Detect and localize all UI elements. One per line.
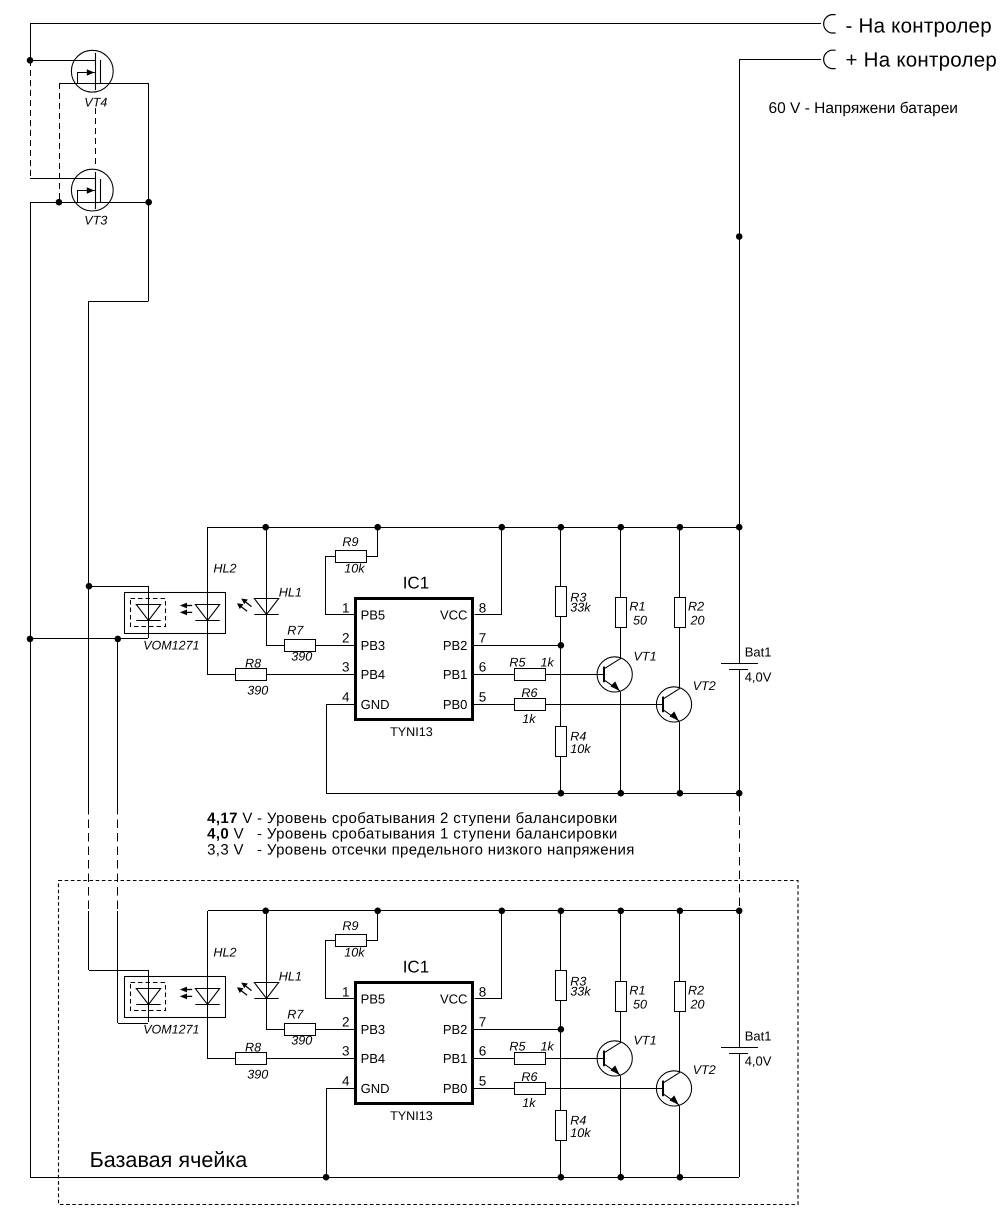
- connector X2 plus (socket arc): [824, 50, 836, 68]
- wire opto feed A to cell 2: [88, 911, 90, 970]
- resistor R3 (cell 2): [556, 971, 567, 1001]
- resistor R6 (cell 1): [515, 699, 546, 711]
- wire photodiode anode feed (cell 2): [89, 970, 148, 972]
- svg-text:R8: R8: [245, 1041, 261, 1055]
- wire jog to cell 1 opto anode feed: [89, 302, 149, 587]
- node battery rail junction (cell 1): [736, 524, 743, 531]
- svg-text:1k: 1k: [541, 1040, 555, 1054]
- wire R1 to VT1 collector (cell 1): [620, 628, 622, 658]
- wire Bat1 minus to bottom rail (cell 1): [739, 669, 741, 793]
- optocoupler VOM1271 body (cell 2): [125, 977, 226, 1018]
- svg-text:10k: 10k: [570, 742, 591, 756]
- wire left rail top segment: [30, 24, 32, 60]
- wire R1 to VT1 collector (cell 2): [620, 1012, 622, 1042]
- svg-text:R7: R7: [287, 1007, 304, 1021]
- node VT3 bottom right junction: [145, 199, 152, 206]
- svg-text:3: 3: [342, 660, 350, 675]
- svg-text:R6: R6: [521, 686, 537, 700]
- wire VT4 source-drain bottom: [59, 83, 149, 85]
- wire photodiode cathode to left rail (cell 1): [30, 638, 148, 640]
- svg-text:PB3: PB3: [361, 638, 386, 653]
- svg-text:PB1: PB1: [443, 667, 468, 682]
- svg-text:R7: R7: [287, 623, 304, 637]
- connector X1 minus (socket arc): [824, 15, 836, 33]
- node cathode feed B junction (cell 1): [115, 636, 122, 643]
- svg-text:R5: R5: [509, 1040, 526, 1054]
- svg-text:R2: R2: [688, 983, 704, 997]
- resistor R4 (cell 2): [556, 1111, 567, 1141]
- wire opto feed B solid segment: [117, 639, 119, 806]
- wire rail to R9 (cell 2): [367, 911, 378, 941]
- photodiode of VOM1271 (cell 2): [136, 989, 160, 1005]
- wire pin 5 PB0 to R6 (cell 1): [474, 704, 514, 706]
- transistor VT2 (cell 2): [656, 1071, 691, 1106]
- wire PB2 node down to R4 (cell 2): [560, 1029, 562, 1110]
- svg-text:R9: R9: [342, 535, 358, 549]
- svg-text:4,0V: 4,0V: [745, 670, 772, 685]
- wire R7 to pin 2 (cell 1): [315, 645, 354, 647]
- resistor R1 (cell 1): [616, 598, 627, 628]
- node left rail cathode junction (cell 1): [27, 636, 34, 643]
- svg-text:1k: 1k: [522, 1096, 536, 1110]
- svg-text:VT3: VT3: [84, 214, 107, 228]
- svg-text:8: 8: [479, 600, 487, 615]
- wire VT1 emitter to bottom rail (cell 2): [620, 1076, 622, 1177]
- wire opto feed A dashed segment: [88, 806, 90, 911]
- svg-text:4,17 V- Уровень сробатывания 2: 4,17 V- Уровень сробатывания 2 ступени б…: [207, 810, 618, 827]
- wire - controller line (top horizontal): [30, 23, 821, 25]
- wire pin 8 VCC to rail (cell 2): [475, 911, 502, 999]
- wire battery chain link solid stub: [739, 793, 741, 804]
- wire battery chain dashed link: [739, 803, 741, 911]
- wire rail to R2 (cell 2): [679, 911, 681, 982]
- svg-text:TYNI13: TYNI13: [390, 725, 433, 739]
- svg-text:5: 5: [479, 690, 487, 705]
- svg-text:50: 50: [633, 614, 647, 628]
- wire HL2 cathode to R8 (cell 1): [208, 621, 236, 675]
- svg-text:R1: R1: [629, 599, 645, 613]
- svg-text:50: 50: [633, 998, 647, 1012]
- svg-text:6: 6: [479, 1044, 487, 1059]
- resistor R8 (cell 1): [236, 669, 267, 681]
- wire R2 to VT2 collector (cell 1): [679, 628, 681, 688]
- node R1 rail junction (cell 1): [618, 524, 625, 531]
- svg-text:4,0V: 4,0V: [745, 1054, 772, 1069]
- svg-text:IC1: IC1: [403, 958, 429, 977]
- svg-text:7: 7: [479, 631, 487, 646]
- wire pin 4 GND drop (cell 2): [327, 1089, 355, 1178]
- HL1 light arrow 1 (cell 2): [241, 983, 251, 991]
- wire pin 6 PB1 to R5 (cell 1): [474, 674, 514, 676]
- battery Bat1 (cell 2): [721, 1048, 758, 1054]
- node R2 rail junction (cell 1): [677, 524, 684, 531]
- wire VT3 right drop: [148, 202, 150, 301]
- svg-text:GND: GND: [361, 697, 390, 712]
- wire R7 to pin 2 (cell 2): [315, 1029, 354, 1031]
- resistor R4 (cell 1): [556, 727, 567, 757]
- wire VCC top rail (cell 1): [208, 527, 739, 529]
- svg-text:PB4: PB4: [361, 667, 386, 682]
- svg-text:2: 2: [342, 631, 350, 646]
- wire VT2 emitter to bottom rail (cell 1): [679, 722, 681, 793]
- transistor VT2 (cell 1): [656, 687, 691, 722]
- wire left outer rail full drop: [30, 202, 32, 1177]
- svg-text:1: 1: [342, 600, 350, 615]
- wire rail to R2 (cell 1): [679, 527, 681, 598]
- wire HL2 anode from rail (cell 1): [207, 527, 209, 620]
- svg-text:1k: 1k: [541, 656, 555, 670]
- wire R4 to bottom rail (cell 1): [560, 756, 562, 793]
- svg-text:3: 3: [342, 1044, 350, 1059]
- wire HL1 cathode to R7 (cell 2): [267, 999, 285, 1030]
- wire VT2 emitter to bottom rail (cell 2): [679, 1106, 681, 1177]
- node battery rail junction (cell 2): [736, 908, 743, 915]
- svg-text:R8: R8: [245, 657, 261, 671]
- wire VT1 emitter to bottom rail (cell 1): [620, 692, 622, 793]
- wire photodiode anode drop (cell 2): [148, 970, 150, 1004]
- node R3 rail junction (cell 2): [558, 908, 565, 915]
- node base cell boundary (dashed box): [59, 881, 799, 1205]
- svg-text:5: 5: [479, 1074, 487, 1089]
- wire R4 to bottom rail (cell 2): [560, 1140, 562, 1177]
- svg-text:10k: 10k: [570, 1126, 591, 1140]
- node bottom rail battery junction (cell 1): [736, 790, 743, 797]
- resistor R1 (cell 2): [616, 982, 627, 1012]
- svg-text:4: 4: [342, 1074, 350, 1089]
- svg-text:390: 390: [291, 1033, 312, 1047]
- wire R8 to pin 3 (cell 1): [266, 674, 354, 676]
- wire R2 to VT2 collector (cell 2): [679, 1012, 681, 1072]
- svg-text:PB4: PB4: [361, 1051, 386, 1066]
- HL1 light arrow 2 (cell 2): [237, 987, 247, 995]
- svg-text:33k: 33k: [570, 601, 591, 615]
- svg-text:VCC: VCC: [440, 992, 467, 1007]
- svg-text:- На контролер: - На контролер: [846, 15, 992, 38]
- node VT1 emitter bottom junction (cell 2): [618, 1174, 625, 1181]
- svg-text:7: 7: [479, 1015, 487, 1030]
- battery Bat1 (cell 1): [721, 664, 758, 670]
- optocoupler VOM1271 body (cell 1): [125, 593, 226, 634]
- svg-text:1k: 1k: [522, 712, 536, 726]
- LED of VOM1271 HL2 (cell 1): [195, 605, 219, 621]
- node R9 rail junction (cell 1): [374, 524, 381, 531]
- wire photodiode cathode drop (cell 2): [148, 1004, 150, 1022]
- svg-text:R2: R2: [688, 599, 704, 613]
- LED HL1 (cell 1): [254, 599, 278, 615]
- wire pin 4 GND drop (cell 1): [327, 705, 355, 794]
- node left rail / VT4 gate junction: [27, 57, 34, 64]
- LED HL1 (cell 2): [254, 983, 278, 999]
- wire opto feed B to cell 2: [117, 911, 119, 1023]
- svg-text:4,0 V- Уровень сробатывания 1: 4,0 V- Уровень сробатывания 1 ступени ба…: [207, 826, 618, 843]
- svg-text:HL2: HL2: [213, 946, 236, 960]
- svg-text:PB2: PB2: [443, 638, 468, 653]
- svg-text:VOM1271: VOM1271: [143, 1023, 199, 1037]
- wire R6 to VT2 base (cell 2): [545, 1088, 663, 1090]
- svg-text:10k: 10k: [344, 946, 365, 960]
- wire R9 to pin 1 (cell 1): [326, 557, 355, 615]
- wire pin 8 VCC to rail (cell 1): [475, 528, 502, 615]
- node VCC rail junction (cell 1): [499, 524, 506, 531]
- wire + controller line: [739, 59, 821, 61]
- wire HL1 anode from rail (cell 2): [266, 911, 268, 998]
- svg-text:HL1: HL1: [279, 969, 302, 983]
- wire R8 to pin 3 (cell 2): [266, 1058, 354, 1060]
- wire VT3 bottom: [59, 202, 149, 204]
- wire opto feed A solid segment: [88, 586, 90, 806]
- wire rail to R1 (cell 2): [620, 911, 622, 982]
- node R2 rail junction (cell 2): [677, 908, 684, 915]
- svg-text:Bat1: Bat1: [745, 1029, 772, 1044]
- svg-text:PB3: PB3: [361, 1022, 386, 1037]
- transistor VT1 (cell 2): [597, 1041, 632, 1076]
- wire R9 to pin 1 (cell 2): [326, 941, 355, 999]
- svg-text:10k: 10k: [344, 562, 365, 576]
- wire HL1 anode from rail (cell 1): [266, 527, 268, 614]
- svg-text:R1: R1: [629, 983, 645, 997]
- resistor R9 (cell 1): [336, 551, 367, 563]
- resistor R6 (cell 2): [515, 1083, 546, 1095]
- svg-text:2: 2: [342, 1015, 350, 1030]
- svg-text:TYNI13: TYNI13: [390, 1109, 433, 1123]
- svg-text:6: 6: [479, 660, 487, 675]
- wire R3 to PB2 node (cell 2): [560, 1000, 562, 1029]
- svg-text:VT2: VT2: [693, 679, 716, 693]
- IC U IC1 body (cell 2): [356, 983, 473, 1104]
- svg-text:VCC: VCC: [440, 608, 467, 623]
- svg-text:PB5: PB5: [361, 992, 386, 1007]
- HL1 light arrow 2 (cell 1): [237, 603, 247, 611]
- opto light arrow 2 (cell 2): [180, 994, 192, 1000]
- svg-text:390: 390: [247, 1067, 268, 1081]
- svg-text:R9: R9: [342, 919, 358, 933]
- svg-text:Базавая ячейка: Базавая ячейка: [90, 1147, 249, 1172]
- wire photodiode cathode drop (cell 1): [148, 620, 150, 638]
- wire HL1 cathode to R7 (cell 1): [267, 615, 285, 646]
- wire PB2 node down to R4 (cell 1): [560, 645, 562, 726]
- svg-text:PB0: PB0: [443, 697, 468, 712]
- optocoupler VOM1271 photodiode dashed box (cell 1): [131, 599, 166, 627]
- svg-text:1: 1: [342, 984, 350, 999]
- node R4 bottom junction (cell 1): [558, 790, 565, 797]
- node R1 rail junction (cell 2): [618, 908, 625, 915]
- resistor R9 (cell 2): [336, 935, 367, 947]
- optocoupler VOM1271 photodiode dashed box (cell 2): [131, 983, 166, 1011]
- wire R6 to VT2 base (cell 1): [545, 704, 663, 706]
- wire pin 7 PB2 to R3/R4 node (cell 1): [474, 645, 561, 647]
- wire R3 to PB2 node (cell 1): [560, 616, 562, 645]
- svg-text:HL1: HL1: [279, 585, 302, 599]
- wire VT4 gate from left rail: [30, 60, 96, 62]
- svg-text:R5: R5: [509, 656, 526, 670]
- wire rail to R9 (cell 1): [367, 528, 378, 557]
- wire rail to R1 (cell 1): [620, 527, 622, 598]
- wire R5 to VT1 base (cell 2): [545, 1058, 604, 1060]
- svg-text:+ На контролер: + На контролер: [846, 49, 998, 72]
- transistor VT3: [71, 169, 113, 211]
- wire VCC top rail (cell 2): [208, 910, 739, 912]
- svg-text:IC1: IC1: [403, 574, 429, 593]
- svg-text:3,3 V- Уровень отсечки предель: 3,3 V- Уровень отсечки предельного низко…: [207, 841, 635, 858]
- svg-text:PB1: PB1: [443, 1051, 468, 1066]
- wire dashed VT4 source to VT3 link: [59, 83, 61, 202]
- transistor VT4: [71, 50, 113, 92]
- wire pin 7 PB2 to R3/R4 node (cell 2): [474, 1029, 561, 1031]
- node HL1 rail junction (cell 1): [262, 524, 269, 531]
- node R3 rail junction (cell 1): [558, 524, 565, 531]
- node + rail junction dot: [736, 233, 743, 240]
- HL1 light arrow 1 (cell 1): [241, 599, 251, 607]
- wire + rail vertical to Bat1 cell 1: [739, 59, 741, 663]
- wire photodiode cathode link (cell 2): [118, 1023, 148, 1025]
- wire photodiode anode drop (cell 1): [148, 586, 150, 620]
- transistor VT1 (cell 1): [597, 657, 632, 692]
- opto light arrow 1 (cell 2): [180, 987, 192, 993]
- opto light arrow 2 (cell 1): [180, 610, 192, 616]
- resistor R3 (cell 1): [556, 587, 567, 617]
- LED of VOM1271 HL2 (cell 2): [195, 989, 219, 1005]
- resistor R7 (cell 1): [285, 640, 316, 652]
- svg-text:390: 390: [291, 649, 312, 663]
- svg-text:20: 20: [690, 614, 705, 628]
- wire dashed left rail segment: [30, 60, 32, 178]
- wire photodiode anode feed (cell 1): [89, 586, 148, 588]
- wire VT3 bottom left extension: [30, 202, 59, 204]
- node HL1 rail junction (cell 2): [262, 908, 269, 915]
- svg-text:VT1: VT1: [634, 649, 657, 663]
- svg-text:4: 4: [342, 690, 350, 705]
- resistor R5 (cell 2): [515, 1053, 546, 1065]
- wire rail to Bat1 (cell 2): [739, 911, 741, 1047]
- svg-text:VT1: VT1: [634, 1033, 657, 1047]
- node VT2 emitter bottom junction (cell 1): [677, 790, 684, 797]
- wire VT4 right drop to VT3: [148, 83, 150, 202]
- svg-text:60 V - Напряжени батареи: 60 V - Напряжени батареи: [769, 100, 958, 117]
- svg-text:GND: GND: [361, 1081, 390, 1096]
- photodiode of VOM1271 (cell 1): [136, 605, 160, 621]
- svg-text:20: 20: [690, 998, 705, 1012]
- node R4 bottom junction (cell 2): [558, 1174, 565, 1181]
- svg-text:8: 8: [479, 984, 487, 999]
- svg-text:PB5: PB5: [361, 608, 386, 623]
- svg-text:VOM1271: VOM1271: [143, 639, 199, 653]
- node GND bottom rail junction (cell 2): [323, 1174, 330, 1181]
- resistor R2 (cell 2): [675, 982, 686, 1012]
- wire rail to R3 (cell 2): [560, 911, 562, 970]
- wire rail to R3 (cell 1): [560, 527, 562, 586]
- IC U IC1 body (cell 1): [356, 599, 473, 720]
- svg-text:PB0: PB0: [443, 1081, 468, 1096]
- svg-text:33k: 33k: [570, 985, 591, 999]
- node VCC rail junction (cell 2): [499, 908, 506, 915]
- wire pin 6 PB1 to R5 (cell 2): [474, 1058, 514, 1060]
- wire pin 5 PB0 to R6 (cell 2): [474, 1088, 514, 1090]
- wire VT3 gate horizontal: [30, 178, 96, 180]
- wire Bat1 minus to bottom rail (cell 2): [739, 1053, 741, 1177]
- svg-text:HL2: HL2: [213, 562, 236, 576]
- wire bottom rail (cell 2): [30, 1177, 739, 1179]
- resistor R5 (cell 1): [515, 669, 546, 681]
- node PB2/R3/R4 junction (cell 1): [558, 642, 565, 649]
- svg-text:VT4: VT4: [84, 96, 107, 110]
- wire HL2 anode from rail (cell 2): [207, 911, 209, 1004]
- node VT3 bottom / dashed link junction: [56, 199, 63, 206]
- node VT2 emitter bottom junction (cell 2): [677, 1174, 684, 1181]
- svg-text:Bat1: Bat1: [745, 645, 772, 660]
- node anode feed junction (cell 1): [86, 583, 93, 590]
- wire dashed VT4-VT3 channel link: [95, 108, 97, 168]
- svg-text:R6: R6: [521, 1070, 537, 1084]
- svg-text:390: 390: [247, 683, 268, 697]
- opto light arrow 1 (cell 1): [180, 603, 192, 609]
- node R9 rail junction (cell 2): [374, 908, 381, 915]
- wire R5 to VT1 base (cell 1): [545, 674, 604, 676]
- wire bottom rail (cell 1): [326, 793, 739, 795]
- wire opto feed B dashed segment: [117, 806, 119, 911]
- svg-text:VT2: VT2: [693, 1063, 716, 1077]
- svg-text:PB2: PB2: [443, 1022, 468, 1037]
- node PB2/R3/R4 junction (cell 2): [558, 1026, 565, 1033]
- resistor R2 (cell 1): [675, 598, 686, 628]
- node VT1 emitter bottom junction (cell 1): [618, 790, 625, 797]
- wire HL2 cathode to R8 (cell 2): [208, 1005, 236, 1059]
- resistor R8 (cell 2): [236, 1053, 267, 1065]
- resistor R7 (cell 2): [285, 1024, 316, 1036]
